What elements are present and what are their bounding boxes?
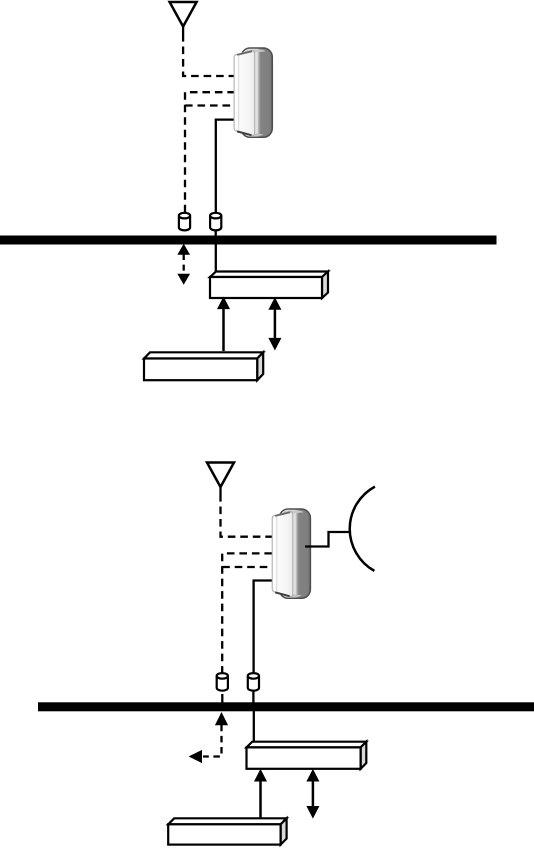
- solid up arrow from terminal to indoor unit (top diagram): [218, 298, 229, 351]
- dashed L-shaped arrow below wall (bottom diagram): [190, 713, 228, 762]
- feed-through connector (right, top diagram): [210, 213, 221, 237]
- terminal box (3D, bottom diagram): [168, 818, 286, 844]
- feed-through connector (left, top diagram): [179, 213, 190, 231]
- feed-through connector (left, bottom diagram): [217, 673, 228, 702]
- wall / bulkhead bar (bottom diagram): [38, 702, 534, 711]
- antenna (omni, top diagram): [170, 2, 197, 34]
- wire: solid cable below wall to indoor unit (bottom diagram): [253, 711, 255, 743]
- indoor unit box (3D, bottom diagram): [247, 742, 367, 769]
- solid up arrow from terminal to indoor unit (bottom diagram): [255, 770, 266, 819]
- wire: link from radio unit to dish feed: [305, 532, 349, 547]
- outdoor radio unit (bottom diagram): [272, 509, 310, 598]
- feed-through connector (right, bottom diagram): [248, 673, 259, 703]
- wire: dashed line 3 to radio unit: [185, 104, 235, 106]
- wire: solid cable below wall to indoor unit (top diagram): [215, 245, 217, 273]
- dish antenna reflector arc: [350, 487, 375, 571]
- wall / bulkhead bar (top diagram): [0, 236, 497, 245]
- antenna (omni, bottom diagram): [207, 463, 234, 495]
- wire: solid cable from radio unit down to feed-through (bottom): [254, 581, 272, 673]
- outdoor radio unit (top diagram): [234, 48, 272, 137]
- wire: dashed line 3 to radio unit (bottom): [222, 566, 272, 568]
- solid double-headed arrow between boxes (bottom diagram): [307, 770, 318, 818]
- wire: dashed IF line 2 with vertical drop to feed-through: [185, 92, 235, 213]
- wire: solid cable from radio unit down to feed-through: [216, 120, 235, 213]
- solid double-headed arrow between boxes (top diagram): [269, 298, 280, 349]
- wire: dashed RF feed from antenna to radio unit: [183, 34, 235, 76]
- wire: dashed RF feed from antenna to radio unit (bottom): [221, 494, 273, 537]
- dashed double-headed arrow through wall (top diagram): [178, 245, 189, 284]
- indoor unit box (3D, top diagram): [210, 272, 328, 299]
- terminal box (3D, top diagram): [144, 352, 263, 380]
- wire: dashed line 2 with vertical drop to feed-through (bottom): [222, 553, 272, 673]
